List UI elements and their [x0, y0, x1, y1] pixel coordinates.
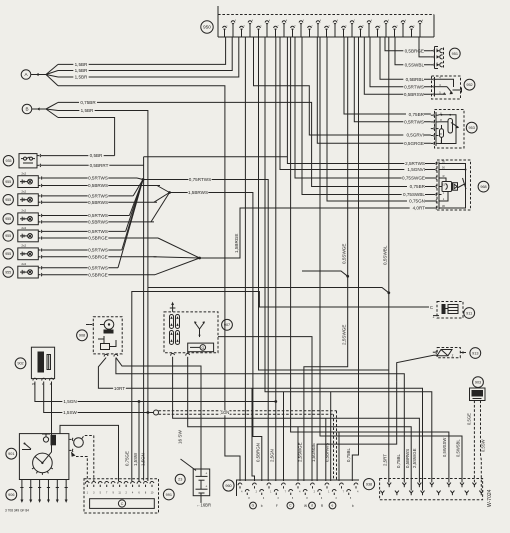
wire 0,5BRWS 955-2: [42, 201, 157, 203]
svg-text:0,5RTWS: 0,5RTWS: [404, 119, 424, 124]
svg-text:938: 938: [366, 482, 372, 486]
svg-text:913: 913: [472, 351, 478, 355]
svg-text:0,75SWGE: 0,75SWGE: [402, 176, 425, 181]
svg-text:2: 2: [235, 20, 237, 22]
svg-text:2,5SWGE: 2,5SWGE: [412, 448, 417, 468]
svg-text:7: 7: [285, 491, 287, 493]
label 0,5BRGE 955-4: [88, 236, 109, 241]
wire 0,5RTWS 955-4: [42, 230, 126, 232]
svg-text:1,5BR: 1,5BR: [75, 62, 88, 67]
component 907 bottom pins: [171, 353, 175, 355]
svg-text:0,75BL: 0,75BL: [396, 454, 401, 468]
wire A4 down: [58, 86, 240, 481]
svg-text:953: 953: [469, 126, 475, 130]
node A circle: [21, 70, 31, 80]
svg-text:2: 2: [311, 25, 313, 27]
component 911 pin2 stub: [433, 315, 439, 317]
svg-text:0,5BRGE: 0,5BRGE: [88, 236, 107, 241]
component 901 rotor: [33, 453, 53, 473]
svg-text:0,5RTWS: 0,5RTWS: [88, 229, 108, 234]
wire 0,5BRRT: [41, 164, 144, 166]
svg-text:G: G: [252, 504, 255, 508]
wire 0,5RTWS 955-2: [42, 195, 133, 197]
wire 0,5BRGE to 951: [385, 37, 431, 51]
connector 938 box: [380, 479, 483, 500]
svg-text:0,5RTWS: 0,5RTWS: [88, 248, 108, 253]
svg-text:7: 7: [343, 491, 345, 493]
svg-text:2: 2: [388, 20, 390, 22]
component 901 breaker: [24, 443, 31, 449]
svg-text:6: 6: [269, 20, 271, 22]
svg-text:5: 5: [292, 498, 294, 500]
label 0,5BRGE: [403, 49, 424, 54]
svg-text:8: 8: [306, 498, 308, 500]
svg-text:0,5BR: 0,5BR: [90, 153, 103, 158]
label 0,5RTWS 955-3: [88, 213, 109, 218]
svg-text:←16BR: ←16BR: [196, 502, 211, 507]
label 0,75BR 968: [407, 184, 425, 189]
svg-text:2x2: 2x2: [21, 209, 26, 213]
svg-text:1,5BR: 1,5BR: [75, 75, 88, 80]
wire 0,75GE to 911: [132, 292, 429, 482]
svg-text:955: 955: [5, 180, 11, 184]
wire 1,5SW to 991: [147, 413, 149, 482]
connector 950 designator circle: [201, 21, 213, 33]
svg-text:955: 955: [5, 234, 11, 238]
wire 0,5BRGE 955-4: [42, 237, 158, 239]
svg-text:955: 955: [5, 252, 11, 256]
svg-text:0,5BRWS: 0,5BRWS: [405, 449, 410, 468]
label 1,5GNVI: [404, 167, 425, 172]
label 0,5BRGE 955-5: [88, 255, 109, 260]
wire 0,75SWGE to 968: [295, 37, 433, 178]
wire 0,5RTWS 955-1: [42, 177, 137, 179]
wire 0,75BL to 938: [116, 358, 404, 483]
svg-text:1,5GN: 1,5GN: [141, 453, 146, 466]
wire B3 to 935: [58, 118, 115, 156]
label 1,5SW: [62, 410, 77, 415]
wire 951 pin2: [419, 37, 431, 57]
wire 2,5SWGE to 938: [173, 357, 420, 483]
component 902 designator: [15, 358, 26, 369]
wire 1,5SW: [44, 382, 154, 413]
wire from alternator to 960: [218, 337, 312, 481]
wire 0,5RTWS to 953: [354, 37, 431, 122]
label 1,5BR B2: [79, 108, 94, 113]
svg-text:3: 3: [93, 492, 95, 495]
component 901 box: [19, 434, 69, 480]
svg-text:1: 1: [87, 492, 89, 495]
svg-text:8: 8: [440, 132, 442, 136]
label 0,5RTWS 955-1: [88, 176, 109, 181]
svg-text:0,5BRGN: 0,5BRGN: [256, 443, 261, 462]
battery designator circle 23: [175, 474, 185, 484]
connector 991 pins: [85, 481, 89, 483]
label 0,5GRVI: [403, 133, 424, 138]
svg-text:2: 2: [443, 190, 445, 194]
lamp 955-4 designator: [3, 231, 13, 241]
connector 960 designator: [223, 480, 234, 491]
svg-text:1: 1: [270, 491, 272, 493]
svg-text:4: 4: [357, 491, 359, 493]
component 908 left pin: [90, 324, 92, 326]
lamp 955-6 box: [18, 266, 39, 278]
wire 0,5BRWS to 938: [188, 357, 412, 491]
svg-text:0,5BRGE: 0,5BRGE: [88, 272, 107, 277]
node B circle: [22, 104, 32, 114]
wire 1GN shielded: [159, 410, 337, 412]
label 0,5RTWS 955-6: [88, 266, 109, 271]
svg-text:7: 7: [106, 492, 108, 495]
svg-text:1: 1: [328, 491, 330, 493]
wire 0,5BRGE 955-5: [42, 256, 157, 258]
wire 0,5WSSW: [291, 37, 449, 483]
component 911 symbol: [448, 305, 458, 314]
wire 0,5BRSW to 952: [364, 37, 431, 94]
svg-text:7: 7: [354, 20, 356, 22]
svg-text:4: 4: [299, 491, 301, 493]
lamp 955-4 box: [18, 230, 39, 242]
component 907 regulator: [188, 343, 214, 352]
svg-text:903: 903: [475, 380, 481, 384]
wire 0,75GN to 968: [327, 37, 433, 201]
svg-text:2,5GN: 2,5GN: [270, 449, 275, 462]
wire to 960 extra4: [325, 418, 327, 481]
junction 1,5BRGE merge: [158, 238, 200, 258]
svg-text:1,5BRWS: 1,5BRWS: [188, 190, 208, 195]
label 2,5RTWS: [404, 161, 425, 166]
svg-text:907: 907: [224, 323, 230, 327]
component 953 box: [435, 110, 465, 149]
label 0,75RTWS: [188, 177, 211, 182]
svg-text:8: 8: [362, 25, 364, 27]
wire HT dotted 2: [76, 457, 87, 482]
svg-text:951: 951: [452, 52, 458, 56]
label C at 911: [429, 305, 434, 310]
connector 960 pins: [238, 483, 242, 485]
component 953 relay symbol: [448, 119, 453, 134]
svg-text:0,5BRWS: 0,5BRWS: [88, 220, 108, 225]
svg-text:0,5RTWS: 0,5RTWS: [404, 84, 424, 89]
connector 950 outline: [218, 14, 434, 16]
node A arrow: [31, 74, 46, 76]
connector 960 codes: [250, 502, 257, 509]
component 913 designator: [470, 348, 481, 359]
component 902 box: [31, 347, 54, 378]
distributor TD sensor: [74, 438, 84, 448]
label 0,5BR: [88, 153, 103, 158]
wire 0,5SWBL to 951: [395, 37, 431, 65]
svg-text:b: b: [352, 504, 354, 508]
label 0,5RTWS 955-5: [88, 248, 109, 253]
connector 938 pins: [388, 484, 390, 487]
svg-text:5: 5: [350, 498, 352, 500]
wire to 960 extra7: [283, 392, 285, 481]
wire 0,5GRVI to 953: [254, 37, 431, 135]
svg-text:+: +: [205, 472, 207, 476]
component 911 box: [437, 302, 463, 319]
label 0,5RTWS 953: [403, 120, 424, 125]
svg-text:W: W: [304, 504, 307, 508]
svg-text:1: 1: [303, 20, 305, 22]
label 0,5BRRT: [89, 163, 110, 168]
svg-text:2,5SWGE: 2,5SWGE: [342, 325, 347, 345]
component 968 pins: [433, 163, 435, 165]
node A fan: [46, 64, 58, 74]
component 908 aux contacts: [98, 336, 104, 339]
svg-text:0,5WSSW: 0,5WSSW: [442, 438, 447, 457]
svg-text:991: 991: [166, 493, 172, 497]
component 913 left pin: [397, 355, 438, 381]
svg-text:0,5SWBL: 0,5SWBL: [383, 245, 388, 265]
svg-text:0,5SW: 0,5SW: [481, 439, 486, 452]
wire 902 HT lead: [42, 382, 51, 463]
svg-text:8: 8: [248, 498, 250, 500]
component 952 pins: [431, 78, 433, 80]
label 0,5BRBL: [403, 77, 424, 82]
wire 1,5BR A1: [58, 37, 226, 64]
wire 0,5BRWS 955-3: [42, 221, 154, 223]
wire 0,75BL 960 feed: [352, 37, 358, 481]
svg-text:906: 906: [8, 493, 14, 497]
component 951 frame: [434, 47, 436, 69]
svg-text:16 SW: 16 SW: [178, 430, 183, 444]
svg-text:0,75BR: 0,75BR: [410, 184, 426, 189]
lamp 955-2 pins: [38, 195, 40, 197]
svg-text:908: 908: [79, 334, 85, 338]
component 953 pins: [431, 114, 433, 116]
component 903 box: [470, 388, 486, 401]
svg-text:R: R: [321, 504, 324, 508]
svg-text:b: b: [261, 504, 263, 508]
svg-text:0,5GRGE: 0,5GRGE: [404, 141, 424, 146]
component 935 symbol: [24, 157, 27, 160]
wire 2,5RTWS to 968: [287, 37, 433, 164]
wire 0,75BR to 953: [344, 37, 431, 114]
wire 0,5BRBL to 952: [380, 37, 431, 79]
lamp 955-2 box: [18, 194, 39, 206]
svg-text:0,75BL: 0,75BL: [346, 448, 351, 462]
label 16BR: [182, 503, 211, 508]
lamp 955-6 pins: [38, 267, 40, 269]
svg-text:15: 15: [442, 182, 445, 186]
component 908 designator: [77, 330, 88, 341]
lamp 955-4 pins: [38, 230, 40, 232]
svg-text:4: 4: [405, 20, 407, 22]
wire 0,75BR B1: [58, 102, 434, 186]
svg-text:9: 9: [113, 492, 115, 495]
connector 938 designator: [363, 479, 374, 490]
component 913 symbol: [437, 350, 452, 356]
component 908 motor symbol: [104, 320, 114, 330]
svg-text:8: 8: [145, 492, 147, 495]
svg-text:950: 950: [203, 25, 211, 30]
wire to 960 extra2: [297, 427, 299, 481]
svg-text:8: 8: [286, 20, 288, 22]
label 0,5RTWS 952: [403, 85, 424, 90]
wire 0,5RTWS 955-5: [42, 249, 122, 251]
wire 0,75RTWS: [143, 180, 268, 482]
svg-text:960: 960: [225, 484, 231, 488]
svg-text:50: 50: [442, 165, 445, 169]
label 0,5SWBL: [403, 63, 424, 68]
wire 1,5BR B2: [58, 111, 148, 413]
label 0,75BR 953: [406, 112, 424, 117]
svg-text:1,5SW: 1,5SW: [133, 452, 138, 466]
component 911 designator: [464, 308, 475, 319]
wire 0,5BRGE 955-6: [42, 274, 155, 276]
wire 16SW: [116, 358, 201, 469]
svg-text:W-7024: W-7024: [487, 489, 493, 507]
svg-text:+: +: [205, 484, 207, 488]
svg-text:3: 3: [277, 498, 279, 500]
wire 2,5SWGE to 960: [304, 37, 348, 481]
svg-text:1: 1: [379, 25, 381, 27]
svg-text:6: 6: [321, 498, 323, 500]
svg-text:0,5BRRT: 0,5BRRT: [90, 163, 109, 168]
wire 1,5GNGE to 960: [317, 382, 397, 481]
svg-text:11: 11: [118, 492, 121, 495]
svg-text:6: 6: [345, 25, 347, 27]
component 907 ground pin: [172, 304, 174, 312]
wire 10RT: [98, 358, 422, 491]
svg-text:9: 9: [294, 25, 296, 27]
component 901 designator: [6, 448, 17, 459]
svg-text:955: 955: [5, 270, 11, 274]
svg-text:2x2: 2x2: [21, 172, 26, 176]
component 968 lock symbol: [442, 182, 452, 192]
svg-text:30: 30: [442, 204, 445, 208]
svg-text:7: 7: [277, 25, 279, 27]
svg-text:4: 4: [132, 492, 134, 495]
lamp 955-1 designator: [3, 176, 13, 186]
wire 0,5SW dashed: [480, 401, 483, 491]
junction 1,5BRWS merge: [157, 186, 170, 193]
battery cells: [196, 475, 208, 477]
connector 991 designator: [163, 489, 174, 500]
svg-text:3: 3: [320, 20, 322, 22]
svg-text:0,5BRWS: 0,5BRWS: [88, 183, 108, 188]
label 10RT: [113, 386, 126, 391]
battery box: [193, 469, 210, 496]
lamp 955-1 box: [18, 176, 39, 188]
label 1GN: [220, 411, 229, 416]
svg-text:F: F: [276, 504, 278, 508]
component 968 designator: [478, 181, 489, 192]
wire 0,5BRWS 955-1: [42, 185, 160, 187]
wire 1,5BR A3: [58, 37, 239, 77]
svg-text:0,5WSBL: 0,5WSBL: [456, 439, 461, 457]
component 907 stator Y: [195, 322, 200, 329]
svg-text:30: 30: [442, 159, 445, 163]
wire 0,75SWBL to 968: [302, 37, 433, 195]
component 913 right pin: [460, 352, 466, 354]
svg-text:0,5SWBL: 0,5SWBL: [405, 62, 425, 67]
svg-text:3: 3: [396, 25, 398, 27]
component 968 box: [437, 160, 471, 210]
svg-text:C: C: [121, 502, 124, 506]
svg-text:2x2: 2x2: [21, 244, 26, 248]
component 952 box: [432, 76, 461, 99]
svg-text:2,5RT: 2,5RT: [383, 454, 388, 466]
connector 960 outline: [237, 480, 360, 496]
node B arrow: [32, 108, 46, 110]
svg-text:C: C: [289, 504, 292, 508]
svg-text:3 708 349 GF 84: 3 708 349 GF 84: [5, 509, 29, 513]
svg-text:6: 6: [422, 20, 424, 22]
svg-text:1,5BR: 1,5BR: [81, 108, 94, 113]
component 903 designator: [473, 377, 484, 388]
svg-text:0,5GRVI: 0,5GRVI: [406, 133, 424, 138]
lamp 955-2 designator: [3, 195, 13, 205]
component 902 coil symbol: [38, 352, 45, 373]
svg-text:0,5RTWS: 0,5RTWS: [88, 176, 108, 181]
wire 16BR ground strap: [197, 493, 201, 505]
svg-text:1: 1: [226, 25, 228, 27]
lamp 955-1 pins: [38, 177, 40, 179]
svg-text:5: 5: [100, 492, 102, 495]
wire 1,5BRWS: [170, 193, 262, 482]
component 907 box: [164, 312, 218, 353]
svg-text:5: 5: [337, 20, 339, 22]
wire 901 to 991: [60, 425, 119, 481]
svg-text:2x2: 2x2: [21, 190, 26, 194]
component 906 designator: [6, 489, 17, 500]
label 1,5BR A2: [73, 68, 88, 73]
lamp 955-3 pins: [38, 215, 40, 217]
connector 991 inner: [90, 499, 155, 509]
label 0,75SWBL: [402, 192, 425, 197]
svg-text:0,75GN: 0,75GN: [409, 199, 425, 204]
svg-text:+: +: [433, 316, 435, 320]
connector 991 box: [84, 479, 159, 513]
wire to 960 extra6: [252, 388, 255, 481]
svg-text:0,5RTWS: 0,5RTWS: [88, 265, 108, 270]
svg-text:0,5BRGE: 0,5BRGE: [88, 254, 107, 259]
label 0,5RTWS 955-2: [88, 194, 109, 199]
svg-text:2: 2: [125, 492, 127, 495]
svg-text:1,5GN: 1,5GN: [63, 399, 76, 404]
label 0,75BR B1: [79, 100, 97, 105]
component 907 designator: [222, 319, 233, 330]
wire HT dotted 1: [82, 436, 94, 439]
wire 0,5GE dashed: [473, 401, 475, 483]
svg-text:1,5SW: 1,5SW: [63, 410, 77, 415]
wire 0,5RTWS to 952: [370, 37, 431, 87]
svg-text:955: 955: [5, 198, 11, 202]
component 935 designator: [3, 156, 13, 166]
svg-text:10: 10: [151, 492, 154, 495]
component 935 box: [19, 154, 37, 168]
svg-text:968: 968: [480, 185, 486, 189]
svg-text:0,75RTWS: 0,75RTWS: [189, 177, 211, 182]
label 0,75SWGE: [402, 176, 425, 181]
svg-text:952: 952: [466, 83, 472, 87]
wire 0,5BR: [41, 155, 115, 157]
svg-text:1,5BR: 1,5BR: [75, 68, 88, 73]
svg-text:0,5BRWS: 0,5BRWS: [324, 443, 329, 462]
svg-text:0,5RTWS: 0,5RTWS: [88, 213, 108, 218]
lamp 955-5 designator: [3, 249, 13, 259]
junction 0,75RTWS merge: [137, 178, 143, 180]
svg-text:0,75GE: 0,75GE: [125, 451, 130, 466]
component 935 pins: [37, 155, 39, 157]
label 1,5BR A1: [73, 62, 88, 67]
label 1,5BRWS: [188, 190, 209, 195]
label 0,5BRGE 955-6: [88, 273, 109, 278]
svg-text:1GN: 1GN: [221, 410, 230, 415]
component 908 bottom pins: [104, 354, 108, 356]
